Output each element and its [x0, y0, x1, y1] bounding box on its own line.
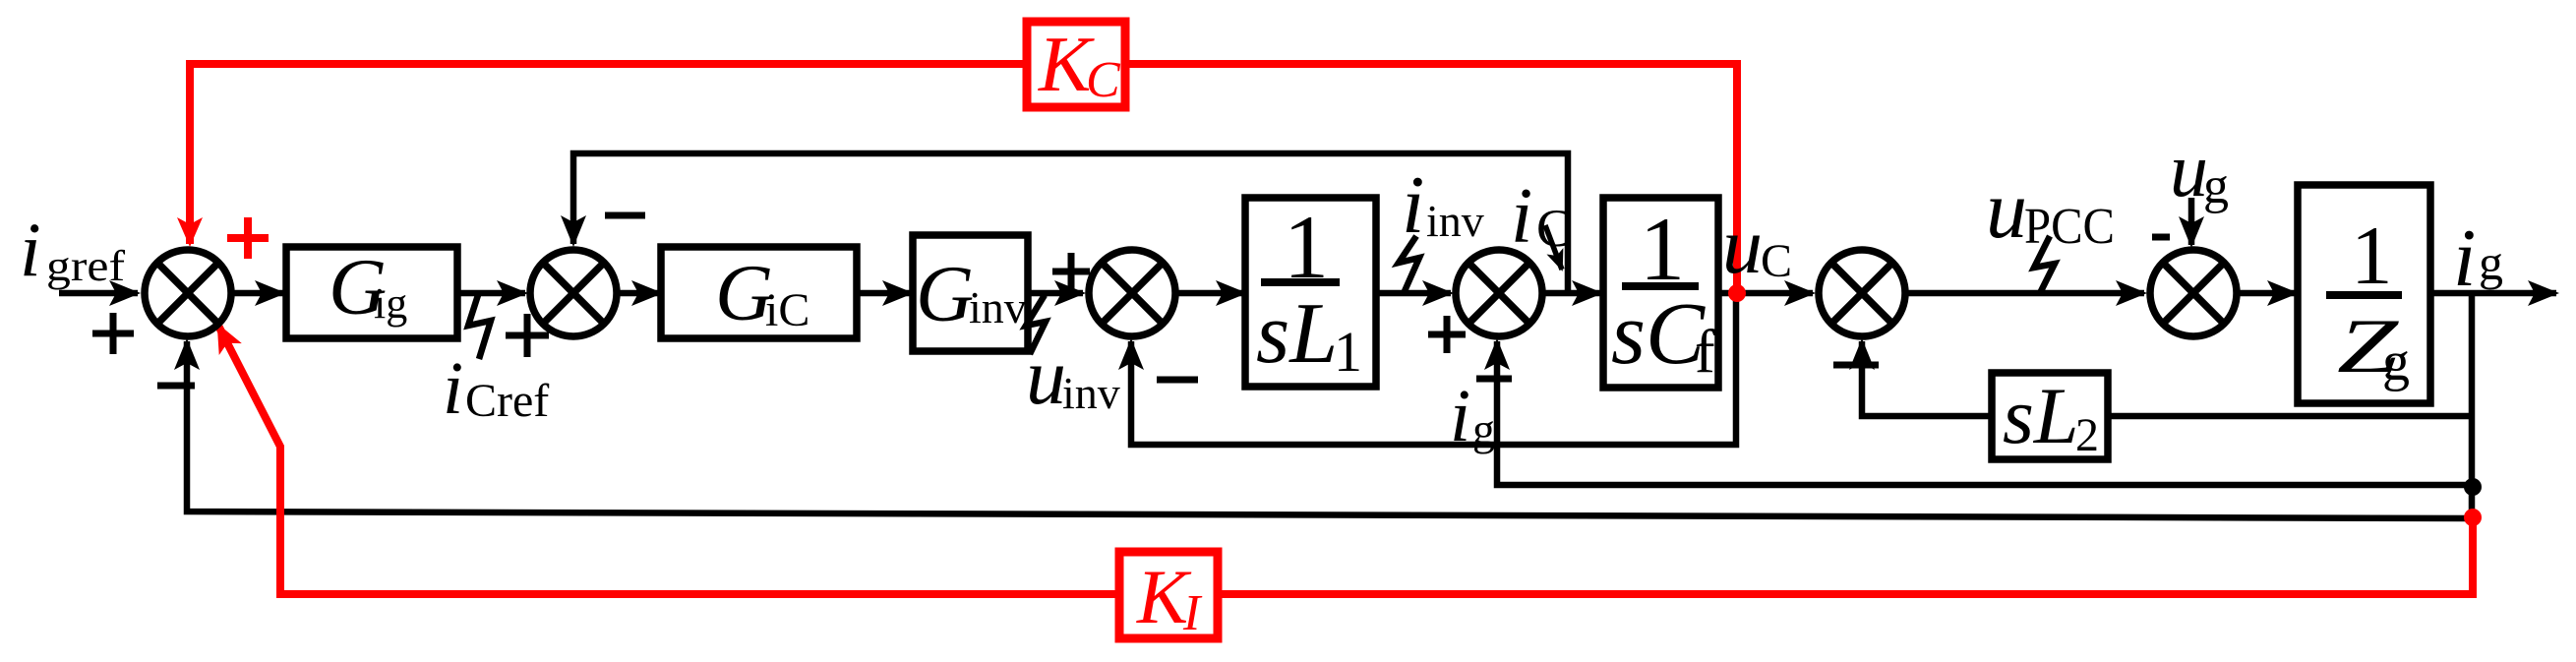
svg-text:PCC: PCC	[2024, 199, 2115, 255]
svg-text:f: f	[1695, 319, 1715, 386]
svg-text:u: u	[1026, 331, 1066, 421]
svg-text:g: g	[2382, 331, 2410, 392]
svg-text:1: 1	[1284, 197, 1329, 297]
svg-text:2: 2	[2075, 409, 2099, 461]
svg-text:inv: inv	[1426, 196, 1484, 246]
svg-text:sC: sC	[1611, 285, 1706, 383]
svg-text:iC: iC	[765, 284, 809, 336]
svg-text:u: u	[1722, 201, 1763, 290]
svg-text:G: G	[916, 249, 974, 338]
svg-text:g: g	[1472, 404, 1495, 454]
svg-text:C: C	[1086, 52, 1121, 108]
svg-text:i: i	[1450, 375, 1470, 457]
svg-text:I: I	[1182, 585, 1203, 641]
svg-text:g: g	[2203, 158, 2229, 214]
svg-text:g: g	[2479, 235, 2503, 290]
svg-text:1: 1	[1334, 320, 1362, 384]
svg-text:i: i	[2453, 212, 2476, 304]
svg-text:sL: sL	[1256, 286, 1338, 382]
svg-text:inv: inv	[1062, 368, 1120, 418]
svg-text:Cref: Cref	[465, 375, 549, 427]
svg-text:ig: ig	[374, 279, 407, 328]
svg-text:gref: gref	[46, 242, 125, 290]
svg-text:inv: inv	[969, 282, 1027, 332]
svg-text:i: i	[20, 207, 41, 292]
svg-text:1: 1	[2351, 210, 2393, 302]
svg-text:C: C	[1761, 235, 1792, 287]
svg-text:C: C	[1536, 199, 1572, 258]
svg-text:i: i	[1402, 159, 1424, 251]
svg-text:u: u	[1986, 164, 2027, 256]
svg-text:sL: sL	[2003, 371, 2079, 460]
svg-text:1: 1	[1640, 199, 1685, 299]
svg-text:i: i	[443, 347, 463, 430]
svg-text:i: i	[1511, 173, 1532, 260]
